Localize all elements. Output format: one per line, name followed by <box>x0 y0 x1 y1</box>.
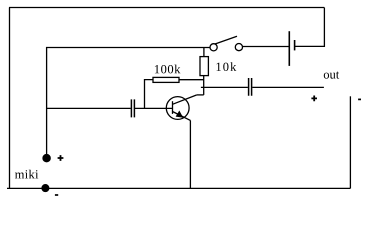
wire battery to top right corner <box>295 8 325 47</box>
wire output capacitor to out terminal <box>252 86 324 88</box>
capacitor C1 input coupling <box>131 99 134 117</box>
label mic minus sign <box>55 194 58 196</box>
label out plus sign <box>311 96 317 102</box>
wire 10k bottom lead down collector node <box>203 76 205 95</box>
resistor 10k body <box>200 57 208 76</box>
wire bottom (ground rail) <box>7 187 350 189</box>
transistor Q1 collector line <box>173 95 197 104</box>
capacitor C2 output coupling <box>249 78 252 96</box>
wire 100k left lead down to base <box>145 80 154 109</box>
wire switch to battery <box>243 46 290 48</box>
wire collector to output capacitor <box>201 86 248 88</box>
wire 10k top lead from switch rail <box>203 47 205 57</box>
wire left border <box>9 8 11 189</box>
transistor Q1 circle <box>166 97 189 120</box>
label miki <box>15 170 38 179</box>
resistor 100k body <box>153 77 179 82</box>
switch S1 lever <box>215 36 237 44</box>
node mic minus dot <box>42 185 49 192</box>
label mic plus sign <box>58 155 64 161</box>
transistor Q1 base bar <box>172 101 174 114</box>
switch S1 left contact <box>210 44 217 51</box>
battery B1 long plate <box>288 31 290 66</box>
battery B1 short plate <box>294 40 296 50</box>
wire collector stub <box>197 94 204 96</box>
wire top border <box>9 7 324 9</box>
wire base node horizontal left of input capacitor <box>47 107 131 109</box>
transistor Q1 emitter line <box>173 112 191 121</box>
wire capacitor to transistor base <box>135 107 173 109</box>
label out <box>324 71 339 78</box>
wire right output minus lead <box>349 96 351 188</box>
label out minus sign <box>358 98 361 100</box>
transistor Q1 emitter arrow <box>176 111 182 117</box>
wire inner top (mic+ to switch) with mic vertical <box>47 48 210 155</box>
wire 100k right lead to collector node <box>179 79 204 81</box>
switch S1 right contact <box>235 44 242 51</box>
wire emitter to ground rail <box>189 120 191 188</box>
label 100k <box>155 65 181 74</box>
node mic plus dot <box>43 155 50 162</box>
label 10k <box>217 62 237 71</box>
